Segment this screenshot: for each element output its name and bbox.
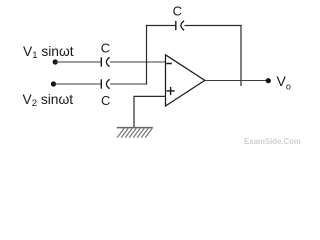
svg-text:C: C [101,93,110,108]
node V2 input terminal [51,81,56,86]
svg-text:Vo: Vo [277,73,291,91]
node V1 input terminal [53,59,58,64]
svg-text:V1 sinωt: V1 sinωt [23,44,74,61]
node Vo output terminal [266,78,271,83]
wire op-amp output [205,80,269,82]
wire summing junction vertical (feedback left leg) [146,25,148,85]
wire capacitor C1 to inverting input [110,61,166,63]
wire V2 to capacitor C2 [54,83,102,85]
wire feedback right leg (down to output) [240,25,242,86]
ground [117,128,153,138]
svg-text:ExamSide.Com: ExamSide.Com [244,137,301,146]
op-amp U1 [166,55,205,106]
svg-text:C: C [173,4,182,19]
op-amp inverting pin mark - [166,63,171,65]
svg-text:V2 sinωt: V2 sinωt [23,92,74,109]
capacitor C (top input) [101,57,109,66]
op-amp non-inverting pin mark + [167,87,175,95]
svg-text:C: C [101,41,110,56]
wire V1 to capacitor C1 [55,61,101,63]
wire feedback top left segment [146,25,176,27]
wire feedback top right segment [185,25,242,27]
wire capacitor C2 to summing junction [110,83,147,85]
wire non-inverting input to ground [134,96,166,127]
capacitor C (bottom input) [101,79,109,88]
capacitor C (feedback) [176,21,184,30]
